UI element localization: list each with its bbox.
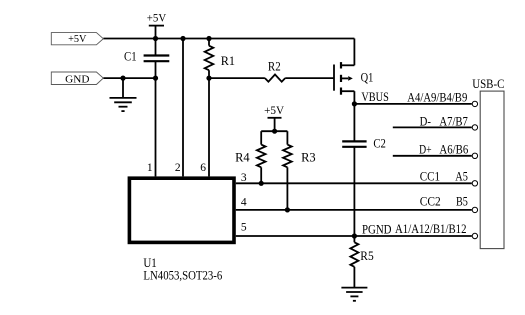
- svg-text:CC2: CC2: [420, 195, 441, 209]
- svg-text:R2: R2: [268, 60, 281, 74]
- svg-text:R1: R1: [221, 54, 235, 68]
- svg-text:CC1: CC1: [420, 169, 440, 183]
- svg-text:A1/A12/B1/B12: A1/A12/B1/B12: [395, 222, 467, 236]
- svg-text:A6/B6: A6/B6: [439, 142, 468, 156]
- svg-text:5: 5: [241, 222, 247, 234]
- svg-text:1: 1: [147, 162, 153, 174]
- svg-text:+5V: +5V: [68, 33, 86, 45]
- svg-text:R5: R5: [360, 249, 373, 263]
- svg-text:C1: C1: [124, 50, 137, 64]
- svg-text:PGND: PGND: [362, 222, 392, 236]
- svg-text:4: 4: [241, 197, 247, 209]
- svg-text:D+: D+: [419, 142, 432, 156]
- svg-text:GND: GND: [65, 73, 89, 85]
- svg-text:LN4053,SOT23-6: LN4053,SOT23-6: [143, 269, 222, 283]
- svg-text:3: 3: [241, 172, 247, 184]
- svg-text:B5: B5: [456, 195, 468, 209]
- svg-text:USB-C: USB-C: [472, 77, 504, 91]
- svg-text:2: 2: [175, 162, 181, 174]
- svg-text:+5V: +5V: [147, 13, 167, 25]
- svg-text:VBUS: VBUS: [361, 90, 388, 104]
- svg-text:A7/B7: A7/B7: [439, 115, 468, 129]
- svg-text:+5V: +5V: [264, 105, 285, 117]
- svg-text:D-: D-: [420, 115, 431, 129]
- svg-text:Q1: Q1: [361, 71, 374, 85]
- svg-text:A4/A9/B4/B9: A4/A9/B4/B9: [407, 90, 467, 104]
- svg-text:C2: C2: [373, 137, 386, 151]
- svg-text:R3: R3: [301, 150, 316, 164]
- svg-text:6: 6: [200, 162, 206, 174]
- svg-text:R4: R4: [235, 150, 250, 164]
- svg-text:A5: A5: [455, 169, 468, 183]
